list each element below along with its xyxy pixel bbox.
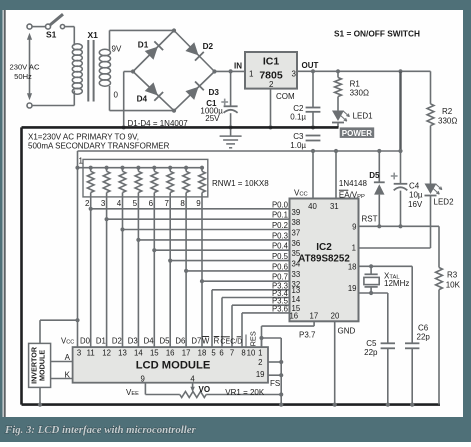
svg-text:9V: 9V (112, 45, 122, 54)
svg-text:R3: R3 (447, 271, 458, 280)
svg-text:12MHz: 12MHz (384, 279, 409, 288)
svg-text:P0.6: P0.6 (272, 262, 288, 271)
svg-text:9: 9 (141, 374, 145, 383)
svg-text:330Ω: 330Ω (438, 116, 457, 125)
svg-text:RES: RES (249, 331, 258, 346)
svg-text:18: 18 (348, 262, 357, 271)
svg-text:OUT: OUT (302, 61, 319, 70)
svg-text:17: 17 (310, 312, 319, 321)
svg-text:C/D: C/D (230, 338, 242, 345)
svg-text:D5: D5 (160, 336, 171, 345)
svg-text:R1: R1 (350, 80, 361, 89)
svg-text:5: 5 (211, 349, 216, 358)
svg-text:19: 19 (256, 370, 265, 379)
svg-text:P3.7: P3.7 (299, 331, 316, 340)
svg-text:D7: D7 (191, 336, 201, 345)
svg-text:D5: D5 (369, 171, 380, 180)
svg-text:1: 1 (79, 156, 84, 165)
svg-text:8: 8 (241, 349, 245, 358)
svg-text:Fig. 3: LCD interface with mic: Fig. 3: LCD interface with microcontroll… (4, 424, 197, 436)
svg-text:P0.3: P0.3 (272, 231, 288, 240)
svg-text:7: 7 (164, 199, 169, 208)
svg-text:25V: 25V (205, 114, 220, 123)
svg-text:34: 34 (292, 260, 301, 269)
svg-text:3: 3 (292, 70, 297, 79)
svg-text:18: 18 (198, 349, 207, 358)
svg-text:35: 35 (292, 249, 301, 258)
svg-text:LCD MODULE: LCD MODULE (136, 360, 211, 372)
svg-text:10µ: 10µ (409, 191, 423, 200)
svg-text:13: 13 (292, 286, 301, 295)
svg-text:W: W (202, 336, 210, 345)
svg-text:12: 12 (102, 349, 111, 358)
svg-text:7: 7 (230, 349, 234, 358)
svg-text:R2: R2 (442, 107, 453, 116)
svg-text:P0.2: P0.2 (272, 221, 288, 230)
svg-text:COM: COM (276, 92, 295, 101)
svg-text:IN: IN (234, 62, 242, 71)
svg-text:14: 14 (292, 295, 301, 304)
svg-text:9: 9 (352, 222, 356, 231)
svg-text:500mA SECONDARY TRANSFORMER: 500mA SECONDARY TRANSFORMER (28, 141, 170, 150)
svg-text:1: 1 (249, 70, 254, 79)
svg-text:LED1: LED1 (353, 112, 374, 121)
svg-text:2: 2 (269, 80, 274, 89)
svg-text:31: 31 (330, 202, 339, 211)
svg-text:13: 13 (118, 349, 127, 358)
svg-text:4: 4 (117, 199, 122, 208)
svg-text:D1: D1 (138, 40, 149, 49)
svg-text:330Ω: 330Ω (350, 89, 369, 98)
svg-text:D1: D1 (96, 336, 106, 345)
svg-text:38: 38 (292, 218, 301, 227)
svg-text:14: 14 (134, 349, 143, 358)
svg-text:0: 0 (114, 91, 119, 100)
svg-text:RST: RST (362, 215, 378, 224)
svg-text:S1 = ON/OFF SWITCH: S1 = ON/OFF SWITCH (334, 29, 420, 39)
svg-text:20: 20 (331, 312, 340, 321)
svg-text:3: 3 (77, 349, 81, 358)
svg-text:22p: 22p (417, 333, 431, 342)
svg-text:10K: 10K (446, 281, 461, 290)
svg-text:16: 16 (166, 349, 175, 358)
svg-text:11: 11 (87, 349, 95, 358)
svg-text:C6: C6 (418, 324, 429, 333)
svg-text:P0.1: P0.1 (272, 211, 288, 220)
svg-text:AT89S8252: AT89S8252 (298, 254, 350, 265)
svg-text:D3: D3 (128, 336, 138, 345)
svg-text:0.1µ: 0.1µ (290, 112, 306, 121)
svg-text:LED2: LED2 (434, 197, 455, 206)
svg-text:X1=230V AC PRIMARY TO 9V,: X1=230V AC PRIMARY TO 9V, (28, 132, 139, 141)
svg-text:D2: D2 (203, 42, 214, 51)
svg-text:16: 16 (289, 312, 298, 321)
svg-text:VO: VO (199, 385, 211, 394)
svg-text:IC2: IC2 (316, 242, 332, 253)
svg-text:D2: D2 (112, 336, 122, 345)
svg-text:VR1 = 20K: VR1 = 20K (225, 388, 265, 397)
svg-text:9: 9 (196, 199, 201, 208)
svg-text:C4: C4 (409, 182, 420, 191)
svg-text:MODULE: MODULE (38, 350, 47, 381)
svg-text:5: 5 (133, 199, 138, 208)
svg-text:16V: 16V (408, 200, 423, 209)
svg-text:P0.0: P0.0 (272, 200, 289, 209)
svg-text:R: R (214, 336, 220, 345)
svg-text:IC1: IC1 (263, 56, 280, 68)
svg-text:P0.4: P0.4 (272, 242, 289, 251)
svg-text:X1: X1 (88, 30, 99, 40)
svg-text:C5: C5 (366, 339, 377, 348)
svg-text:D4: D4 (144, 336, 155, 345)
svg-text:22p: 22p (364, 348, 378, 357)
svg-text:S1: S1 (46, 30, 57, 40)
svg-text:36: 36 (292, 239, 301, 248)
svg-text:K: K (65, 371, 71, 380)
svg-text:1: 1 (352, 243, 356, 252)
svg-text:1.0µ: 1.0µ (290, 141, 306, 150)
svg-text:6: 6 (219, 349, 223, 358)
svg-text:GND: GND (338, 326, 356, 335)
svg-text:6: 6 (149, 199, 154, 208)
svg-text:40: 40 (308, 202, 317, 211)
svg-text:2: 2 (85, 199, 90, 208)
svg-text:17: 17 (182, 349, 191, 358)
svg-text:4: 4 (190, 374, 195, 383)
svg-text:230V AC: 230V AC (10, 63, 40, 72)
svg-text:D0: D0 (80, 336, 91, 345)
svg-text:39: 39 (292, 208, 301, 217)
svg-text:P0.5: P0.5 (272, 252, 289, 261)
svg-text:1N4148: 1N4148 (339, 179, 368, 188)
svg-text:D3: D3 (209, 88, 220, 97)
svg-text:D4: D4 (137, 95, 148, 104)
svg-text:CE: CE (220, 338, 230, 345)
svg-text:19: 19 (348, 284, 357, 293)
svg-text:1: 1 (258, 349, 262, 358)
svg-text:10: 10 (247, 349, 256, 358)
svg-text:50Hz: 50Hz (14, 72, 32, 81)
svg-text:33: 33 (292, 270, 301, 279)
svg-text:37: 37 (292, 229, 301, 238)
svg-text:2: 2 (258, 358, 262, 367)
svg-text:15: 15 (150, 349, 159, 358)
svg-text:P3.6: P3.6 (272, 304, 288, 313)
svg-text:RNW1 = 10KX8: RNW1 = 10KX8 (212, 179, 269, 188)
svg-text:8: 8 (180, 199, 185, 208)
svg-text:POWER: POWER (342, 129, 372, 138)
svg-text:D6: D6 (175, 336, 185, 345)
svg-text:A: A (65, 353, 71, 362)
svg-text:3: 3 (101, 199, 106, 208)
svg-text:FS: FS (270, 379, 280, 388)
